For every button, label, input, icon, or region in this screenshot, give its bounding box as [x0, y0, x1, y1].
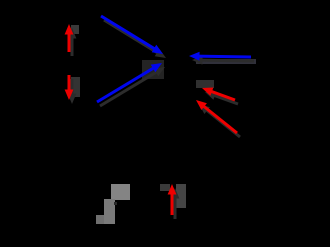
red arrow R1 pointing up at left carbonyl O — [65, 24, 74, 52]
blue arrow B2 from lower-left at ring N — [97, 63, 162, 102]
red arrow R3 from right at upper O — [202, 88, 235, 101]
artifact patch above R3 head — [196, 80, 214, 88]
shadow of red arrow R2 pointing down at left O — [68, 79, 77, 104]
artifact block left of R5 head — [160, 184, 170, 191]
shadow of red arrow R4 from lower-right at O — [199, 104, 240, 137]
shadow of blue arrow B1 from upper-left at ring N — [104, 20, 166, 58]
artifact block near R1 head — [71, 25, 79, 34]
shadow of red arrow R1 pointing up at left carbonyl O — [68, 28, 77, 56]
shadow of blue arrow B2 from lower-left at ring N — [100, 67, 165, 106]
gray shadow arrow (blocky staircase, hydrogen position) — [96, 184, 130, 224]
red arrow R4 from lower-right at O — [196, 100, 237, 133]
shadow of red arrow R5 pointing up at bottom O — [171, 188, 180, 219]
shadow of red arrow R3 from right at upper O — [205, 92, 238, 105]
blue arrow B3 horizontal from right at N — [189, 52, 251, 61]
artifact patch under blue arrowheads B1 B2 — [142, 60, 164, 79]
red arrow R2 pointing down at left O — [65, 75, 74, 100]
red arrow R5 pointing up at bottom O — [168, 184, 177, 215]
blue arrow B1 from upper-left at ring N — [101, 16, 163, 54]
artifact band under B3 — [196, 59, 256, 64]
artifact block right of R2 — [71, 77, 80, 97]
shadow of blue arrow B3 horizontal from right at N — [192, 56, 254, 65]
artifact block right of R5 head — [176, 184, 186, 208]
